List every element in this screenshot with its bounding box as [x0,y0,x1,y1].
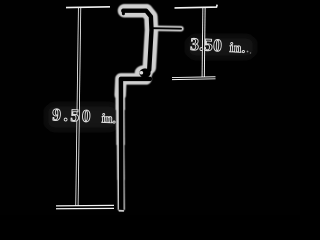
right dim vertical [202,7,206,78]
halo of lower web segment a [115,95,125,110]
top flange left end tip [122,12,125,14]
halo of top flange bar [125,4,147,18]
right dimension line (3.50 in.) [172,5,217,79]
hem curl blob [139,68,150,77]
step shoulder and lower web stroke [121,79,150,210]
halo of lower web segment b [116,110,125,145]
end wrap at bottom of lower vertical [119,210,123,212]
halo of upper web segment [146,11,151,68]
stray glyph specks right of 3.50 in. [247,51,249,53]
left dimension line (9.50 in.) [56,7,114,208]
halo of step shoulder [120,79,146,95]
halo of lower web segment d [117,180,125,210]
top flange bar and upper web stroke [123,11,151,70]
left dim top cap [66,6,110,9]
halo around hem curl [135,65,153,80]
halo of lower web segment c [117,145,125,180]
halo of leader tick [152,25,181,31]
hem curl eye (white hole) [140,71,144,75]
left dim bottom cap [56,205,114,210]
leader tick stroke [152,27,181,30]
right dim top cap [175,5,218,8]
right dim bottom cap [172,76,216,80]
jpeg noise cloud behind 3.50 in. label [187,36,255,58]
jpeg noise cloud behind 9.50 in. label [46,104,118,130]
left dim vertical [77,7,80,207]
